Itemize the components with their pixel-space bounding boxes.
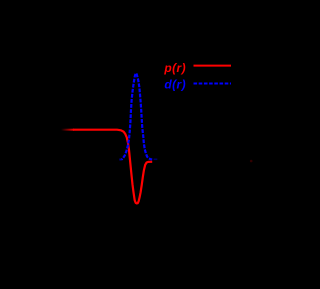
legend sample line d(r) xyxy=(194,83,232,85)
legend sample line p(r) xyxy=(194,65,232,67)
curve d(r) faint continuation dash xyxy=(154,158,158,160)
curve d(r) fade-in first dash xyxy=(119,159,122,161)
curve d(r) blue dashed xyxy=(122,73,153,159)
svg-text:d(r): d(r) xyxy=(164,78,186,92)
svg-text:p(r): p(r) xyxy=(163,61,186,75)
curve p(r) fade-in tail xyxy=(61,129,74,131)
faint stray dot xyxy=(250,160,253,163)
curve p(r) red solid xyxy=(73,130,152,204)
